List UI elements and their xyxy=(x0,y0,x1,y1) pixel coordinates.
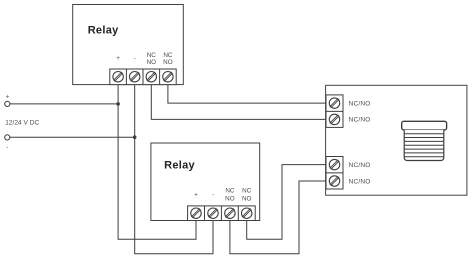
svg-text:NO: NO xyxy=(147,59,157,66)
svg-text:12/24 V DC: 12/24 V DC xyxy=(5,119,39,126)
relay 1 screw terminal NC/NO 2 xyxy=(163,72,173,82)
svg-text:NC/NO: NC/NO xyxy=(349,162,371,169)
relay 1 pin label - xyxy=(134,55,136,62)
svg-text:NC/NO: NC/NO xyxy=(349,117,371,124)
supply label 12/24 V DC xyxy=(5,119,39,126)
relay 1 screw terminal NC/NO 1 xyxy=(146,72,156,82)
shutter device screw terminal 4 xyxy=(329,176,339,186)
relay 2 body xyxy=(151,143,260,221)
relay 2 screw terminal NC/NO 1 xyxy=(225,208,235,218)
wire relay 1 + to relay 2 + xyxy=(118,85,196,240)
wire - rail xyxy=(10,136,135,138)
relay 1 body xyxy=(73,5,184,85)
svg-text:+: + xyxy=(194,192,198,199)
wire + rail xyxy=(10,103,118,105)
svg-text:+: + xyxy=(116,55,120,62)
svg-text:Relay: Relay xyxy=(164,160,195,172)
supply terminal node + xyxy=(5,101,10,106)
wire relay 2 NC/NO 1 to shutter device terminal 4 xyxy=(230,181,326,254)
svg-text:NC: NC xyxy=(225,188,235,195)
supply label + xyxy=(6,94,10,101)
wire relay 2 NC/NO 2 to shutter device terminal 3 xyxy=(247,165,326,240)
relay 2 pin label - xyxy=(212,192,214,199)
shutter device screw terminal 3 xyxy=(329,159,339,169)
svg-text:NO: NO xyxy=(225,196,235,203)
relay 2 screw terminal - xyxy=(208,208,218,218)
svg-text:NC/NO: NC/NO xyxy=(349,178,371,185)
junction - rail to relay wires xyxy=(133,135,137,139)
wire relay 1 NC/NO 1 to shutter device terminal 2 xyxy=(151,85,326,120)
svg-text:NC: NC xyxy=(242,188,252,195)
shutter device pin label NC/NO 2 xyxy=(349,117,371,124)
svg-text:+: + xyxy=(6,94,10,101)
relay 2 terminal block xyxy=(188,206,256,221)
relay 2 pin label NC/NO 2 xyxy=(242,188,252,203)
shutter device screw terminal 1 xyxy=(329,98,339,108)
relay 1 terminal block xyxy=(110,69,176,85)
relay 2 screw terminal + xyxy=(191,208,201,218)
wire relay 1 NC/NO 2 to shutter device terminal 1 xyxy=(168,85,326,104)
shutter device terminal block top xyxy=(326,95,343,128)
shutter device pin label NC/NO 1 xyxy=(349,100,371,107)
shutter icon xyxy=(402,121,447,160)
relay 2 label "Relay" xyxy=(164,160,195,172)
relay 1 pin label NC/NO 1 xyxy=(147,52,157,66)
svg-text:Relay: Relay xyxy=(88,25,119,37)
svg-text:-: - xyxy=(212,192,214,199)
relay 1 screw terminal - xyxy=(130,72,140,82)
shutter device pin label NC/NO 3 xyxy=(349,162,371,169)
shutter device pin label NC/NO 4 xyxy=(349,178,371,185)
relay 1 label "Relay" xyxy=(88,25,119,37)
svg-text:NO: NO xyxy=(163,59,173,66)
svg-text:-: - xyxy=(134,55,136,62)
svg-text:-: - xyxy=(6,144,8,151)
svg-text:NC/NO: NC/NO xyxy=(349,100,371,107)
relay 2 screw terminal NC/NO 2 xyxy=(242,208,252,218)
relay 1 pin label + xyxy=(116,55,120,62)
shutter device body xyxy=(326,85,467,195)
shutter device terminal block bottom xyxy=(326,157,343,190)
wire relay 1 - to relay 2 - xyxy=(135,85,213,254)
relay 2 pin label + xyxy=(194,192,198,199)
svg-text:NC: NC xyxy=(147,52,157,59)
junction + rail to relay wires xyxy=(116,102,120,106)
svg-text:NC: NC xyxy=(163,52,173,59)
shutter device screw terminal 2 xyxy=(329,114,339,124)
relay 2 pin label NC/NO 1 xyxy=(225,188,235,203)
supply terminal node - xyxy=(5,135,10,140)
supply label - xyxy=(6,144,8,151)
relay 1 screw terminal + xyxy=(113,72,123,82)
relay 1 pin label NC/NO 2 xyxy=(163,52,173,66)
svg-text:NO: NO xyxy=(242,196,252,203)
